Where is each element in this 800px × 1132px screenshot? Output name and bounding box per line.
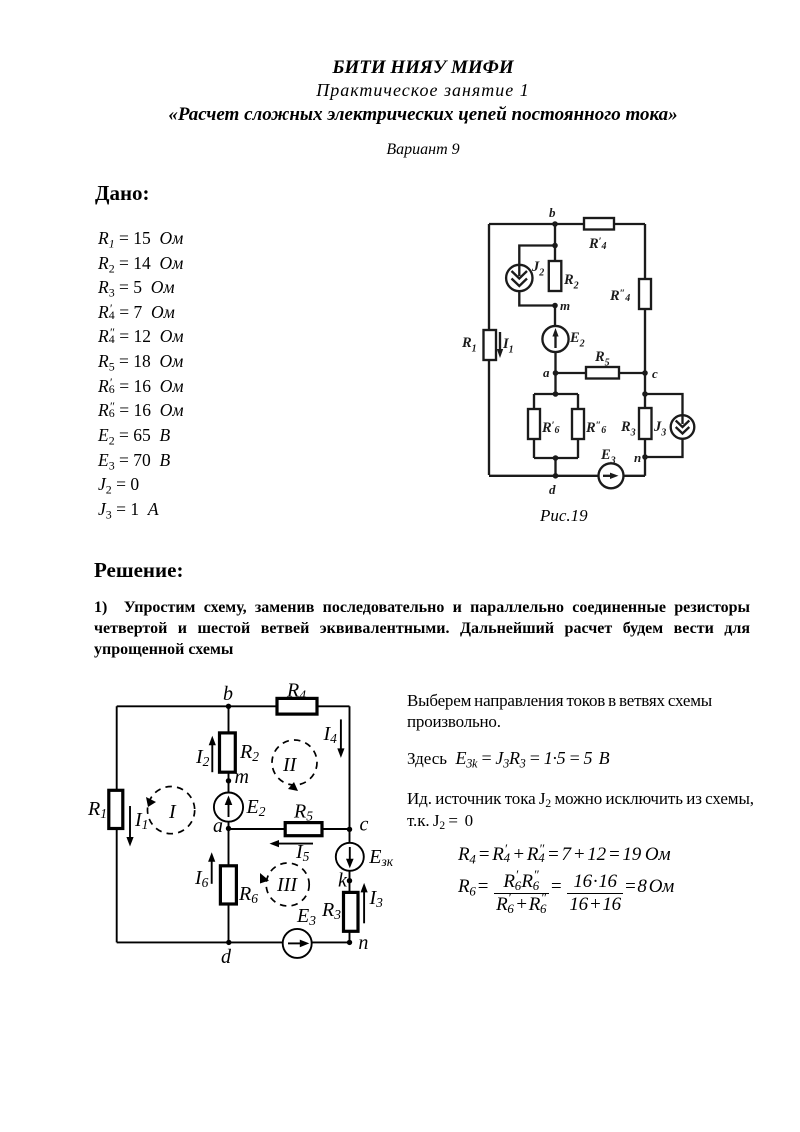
svg-text:R5: R5 (293, 801, 313, 824)
svg-text:k: k (338, 870, 348, 892)
svg-text:I2: I2 (195, 746, 210, 769)
svg-text:d: d (549, 482, 556, 497)
wire bottom rail right (624, 475, 646, 477)
wire J2 branch bottom (519, 291, 555, 305)
wire R6 group top rail (534, 394, 578, 409)
svg-text:R″6: R″6 (585, 420, 606, 436)
header title line 2 (23, 80, 800, 101)
current arrow I1 (497, 332, 514, 358)
resistor R2 (220, 733, 260, 772)
figure caption (540, 506, 588, 526)
svg-text:R″4: R″4 (609, 288, 630, 304)
loop III dashed (260, 863, 309, 906)
resistor R1 (87, 790, 123, 828)
node n (634, 450, 648, 465)
wire R''4 to c (644, 309, 646, 373)
svg-text:E2: E2 (569, 330, 585, 350)
resistor R2 (549, 261, 579, 292)
given data list (98, 228, 183, 249)
svg-text:R4: R4 (286, 680, 306, 703)
junction node top of J2 branch (552, 243, 558, 249)
svg-text:b: b (223, 683, 233, 705)
right column paragraph 1 (407, 691, 743, 732)
svg-text:R3: R3 (321, 899, 341, 922)
svg-text:d: d (221, 946, 232, 968)
loop I dashed (146, 787, 195, 834)
resistor R5 (285, 801, 322, 836)
wire m to E2 (554, 306, 556, 327)
svg-text:R6: R6 (238, 883, 258, 906)
right column paragraph 2 (407, 788, 769, 832)
wire E2 to a (554, 352, 556, 373)
Dano heading (95, 181, 150, 206)
current source J2 (506, 259, 544, 291)
node k (338, 870, 352, 892)
node b (223, 683, 233, 709)
wire J3 branch top (645, 394, 683, 416)
node a (543, 365, 558, 380)
junction node bottom of R6 group (553, 455, 559, 461)
resistor R1 (461, 330, 496, 360)
variant line (23, 141, 800, 159)
resistor R'6 (528, 409, 559, 439)
wire b down to R2 (554, 224, 556, 261)
wire R6 group bottom rail (534, 439, 578, 458)
svg-text:n: n (634, 450, 641, 465)
header title line 3 (23, 104, 800, 126)
node d (221, 940, 232, 968)
wire bottom rail left (489, 475, 599, 477)
wire left rail (488, 224, 490, 475)
svg-text:R5: R5 (594, 349, 610, 369)
voltage source E2 (214, 793, 266, 822)
current arrow I4 (323, 719, 345, 758)
SIMPLIFIED SCHEMATIC (80, 675, 400, 975)
current arrow I3 (361, 883, 384, 923)
node a (213, 815, 231, 837)
svg-text:I: I (168, 801, 177, 823)
node m (226, 766, 249, 788)
node m (552, 298, 570, 313)
wire top left b to left rail (489, 223, 584, 225)
svg-text:I6: I6 (194, 867, 209, 890)
wire down to node d (554, 458, 556, 476)
svg-text:II: II (282, 754, 298, 776)
wire left rail (116, 706, 118, 942)
svg-text:E3: E3 (296, 905, 316, 928)
wire a down to parallel group (554, 373, 556, 394)
loop II dashed (272, 740, 317, 791)
node d (549, 473, 558, 497)
wire J3 branch bottom (645, 439, 683, 457)
header title line 1 (23, 57, 800, 79)
svg-text:R2: R2 (239, 741, 259, 764)
current arrow I6 (194, 852, 215, 890)
node c (642, 366, 658, 381)
wire n down to bottom rail (644, 439, 646, 476)
wire R5 to c (619, 372, 645, 374)
SCANNED CIRCUIT FIG 19 (440, 195, 720, 505)
svg-text:R′4: R′4 (588, 236, 606, 252)
wire J2 branch top (519, 246, 555, 266)
voltage source E3 (283, 905, 317, 958)
junction node top of J3 branch (642, 391, 648, 397)
svg-text:c: c (360, 814, 369, 836)
current arrow I5 (270, 840, 314, 864)
resistor R3 (321, 892, 358, 931)
svg-text:E2: E2 (246, 796, 266, 819)
svg-text:R2: R2 (563, 272, 579, 292)
wire middle branch (228, 706, 230, 942)
formula R4 (458, 844, 670, 866)
wire branch a-c (R5) (229, 828, 350, 830)
resistor R6 (220, 866, 258, 906)
wire R'4 to right rail (614, 223, 645, 225)
svg-text:b: b (549, 205, 556, 220)
resistor R'4 (584, 218, 614, 252)
resistor R5 (586, 349, 619, 379)
svg-text:I1: I1 (502, 336, 514, 356)
svg-text:c: c (652, 366, 658, 381)
svg-text:R1: R1 (87, 798, 107, 821)
solution paragraph (94, 597, 750, 660)
wire top rail (117, 705, 350, 707)
current arrow I2 (195, 736, 216, 772)
svg-text:R1: R1 (461, 335, 477, 355)
right column formula line (407, 748, 609, 769)
resistor R3 (620, 408, 652, 439)
svg-text:m: m (560, 298, 570, 313)
junction node top of R6 group (553, 391, 559, 397)
resistor R4 (277, 680, 317, 715)
wire a to R5 (556, 372, 587, 374)
node c (347, 814, 369, 836)
resistor R''6 (572, 409, 606, 439)
svg-text:R′6: R′6 (541, 420, 559, 436)
svg-text:R3: R3 (620, 419, 636, 439)
svg-text:III: III (276, 874, 298, 896)
current source J3 (653, 415, 694, 439)
voltage source E3k (336, 843, 394, 871)
Solution heading (94, 558, 183, 583)
resistor R''4 (609, 279, 651, 309)
svg-text:J3: J3 (653, 419, 666, 439)
wire right rail (349, 706, 351, 942)
node n (347, 932, 369, 954)
voltage source E3 (599, 447, 624, 488)
wire c down to J3 junction (644, 373, 646, 408)
current arrow I1 (126, 806, 148, 847)
svg-text:Eзк: Eзк (368, 846, 393, 869)
svg-text:I3: I3 (369, 887, 384, 910)
svg-text:I1: I1 (134, 809, 148, 832)
voltage source E2 (542, 326, 584, 352)
svg-text:n: n (358, 932, 368, 954)
svg-text:a: a (543, 365, 550, 380)
node b (549, 205, 558, 227)
wire right rail top (644, 224, 646, 279)
svg-text:m: m (235, 766, 249, 788)
svg-text:a: a (213, 815, 223, 837)
svg-text:I4: I4 (323, 723, 338, 746)
wire bottom rail (117, 941, 350, 943)
formula R6 with fractions (458, 872, 674, 915)
